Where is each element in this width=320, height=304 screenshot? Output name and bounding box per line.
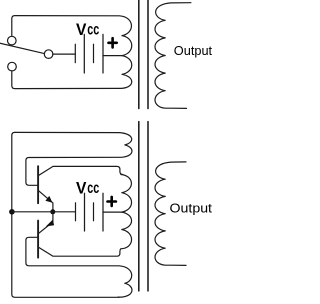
Q2 emitter arrow xyxy=(46,220,54,227)
wire: battery + to primary centre tap xyxy=(103,211,122,213)
svg-text:V: V xyxy=(76,178,87,197)
svg-text:cc: cc xyxy=(87,22,99,39)
switch SW1 top contact xyxy=(8,36,17,45)
wire: battery + to primary centre tap xyxy=(103,55,122,57)
battery B2 plate short xyxy=(75,203,77,221)
wire: rail to battery xyxy=(12,211,76,213)
transformer T1 core line left xyxy=(138,0,140,109)
wire: pole to battery xyxy=(53,53,76,55)
battery B1 plate short xyxy=(93,44,95,62)
transistor Q1 base bar xyxy=(37,166,39,203)
wire: top rail + feedback winding upper + base loop of Q1 xyxy=(15,132,132,185)
battery B2 plate long xyxy=(84,193,86,231)
wire: primary L1 lower half into bottom+left rail xyxy=(12,56,132,89)
primary lower main section to Q2 collector xyxy=(38,212,131,256)
svg-text:V: V xyxy=(76,20,87,39)
junction dot (left rail) xyxy=(9,209,15,215)
secondary winding L4 xyxy=(155,162,186,266)
svg-text:Output: Output xyxy=(170,200,213,215)
transistor Q1 emitter xyxy=(38,190,53,209)
label + xyxy=(109,38,117,47)
battery B1 plate long xyxy=(83,34,85,73)
battery B2 plate long xyxy=(102,193,104,231)
Q1 emitter arrow xyxy=(45,196,52,203)
svg-text:Output: Output xyxy=(174,43,213,58)
transistor Q2 emitter xyxy=(38,214,53,234)
svg-text:cc: cc xyxy=(87,180,99,197)
junction dot (emitters) xyxy=(50,209,55,214)
wire: left rail xyxy=(12,132,119,297)
wire: Q2 base loop + feedback winding lower xyxy=(26,237,132,297)
battery B1 plate short xyxy=(74,44,76,62)
transistor Q1 collector + wire to winding tap xyxy=(38,166,131,212)
switch SW1 bottom contact xyxy=(8,62,17,71)
transformer T1 core line right xyxy=(147,0,149,109)
switch SW1 pole contact xyxy=(44,50,53,59)
label + (bottom) xyxy=(108,197,116,206)
transformer T2 core line right xyxy=(147,122,149,291)
switch lever xyxy=(0,43,44,53)
battery B1 plate long xyxy=(102,34,104,73)
battery B2 plate short xyxy=(93,203,95,221)
transformer T2 core line left xyxy=(138,122,140,291)
transistor Q2 base bar xyxy=(37,221,39,258)
wire: left+top rail into primary L1 upper half xyxy=(12,16,132,56)
secondary winding L2 xyxy=(155,3,191,109)
